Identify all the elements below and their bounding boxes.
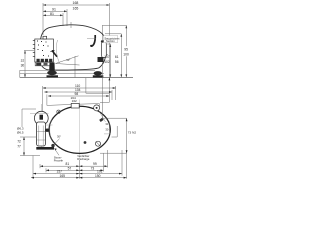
suction label box <box>104 36 118 43</box>
weld seam arc <box>56 40 59 63</box>
right foot <box>94 71 102 75</box>
process tube elbow <box>91 35 95 46</box>
svg-text:165: 165 <box>60 174 66 178</box>
svg-text:30°: 30° <box>57 134 61 138</box>
left corner ext <box>20 109 40 178</box>
svg-text:10°: 10° <box>66 58 70 62</box>
arrows top dims <box>24 4 127 77</box>
inner step arc <box>50 117 53 143</box>
svg-text:81: 81 <box>50 12 54 16</box>
left protruding pins <box>33 41 35 57</box>
cross ext line <box>30 113 49 115</box>
bolt circles on rim <box>36 147 54 150</box>
svg-text:73: 73 <box>91 166 95 170</box>
svg-text:Ø6,5: Ø6,5 <box>17 131 24 135</box>
leader rim circle to 36 <box>99 110 106 122</box>
svg-text:37: 37 <box>21 59 25 63</box>
svg-text:57: 57 <box>68 166 72 170</box>
svg-text:73 N2: 73 N2 <box>128 130 137 134</box>
ext line right x109.5 <box>109 3 111 77</box>
svg-text:72: 72 <box>17 140 21 144</box>
stacked width dims <box>43 86 116 112</box>
svg-text:150: 150 <box>95 174 101 178</box>
angle dim V <box>56 56 80 65</box>
leader from box1 to rim <box>55 149 59 155</box>
vert dim x133.5 <box>125 25 127 46</box>
rim rect top <box>71 103 79 108</box>
oval shell plan view <box>49 106 110 153</box>
svg-text:102: 102 <box>104 60 110 64</box>
dim line 81 <box>43 14 63 16</box>
ext y27.5 <box>105 33 121 35</box>
left foot <box>49 63 55 71</box>
box top stub <box>43 36 47 39</box>
rim circle <box>94 105 100 111</box>
svg-text:100: 100 <box>123 52 129 56</box>
svg-text:107: 107 <box>104 55 110 59</box>
oil tube circle inside <box>57 110 60 113</box>
svg-text:31: 31 <box>105 122 108 126</box>
right dims plan view <box>100 118 127 179</box>
vert dim x122.5 <box>120 34 122 78</box>
dim line 91 <box>43 10 67 12</box>
terminal dots <box>37 41 52 57</box>
svg-text:165: 165 <box>73 6 79 10</box>
ext y50.5 <box>24 50 34 52</box>
svg-text:56: 56 <box>115 60 119 64</box>
svg-text:30: 30 <box>105 127 108 131</box>
vert dim x111.3 <box>109 44 111 77</box>
ext y46 tube <box>107 43 111 45</box>
bottom dim rows <box>31 150 127 179</box>
left circle element <box>40 104 42 148</box>
link tick from side view tube <box>101 62 103 119</box>
terminal block row under box <box>37 59 53 62</box>
ext y54.7 tick <box>104 54 108 56</box>
svg-text:95: 95 <box>124 47 128 51</box>
foot position vertical x75 <box>74 56 76 77</box>
electrical box <box>35 39 54 62</box>
baseline <box>20 76 133 78</box>
svg-text:168: 168 <box>73 1 79 5</box>
centerline tick top <box>70 22 72 28</box>
discharge stub leader (dark diagonal) <box>52 51 57 57</box>
left corner tick <box>19 70 21 77</box>
svg-text:30: 30 <box>21 64 25 68</box>
baseplate line y73.6 <box>20 73 104 75</box>
plan view centerline <box>79 100 81 160</box>
ext line x67 <box>66 9 68 26</box>
svg-text:162: 162 <box>72 99 77 103</box>
ext line left x43 <box>42 3 44 35</box>
svg-text:Procele: Procele <box>54 158 64 162</box>
dim line 168 <box>43 4 110 6</box>
ext from tube top to height dim <box>102 25 126 40</box>
shell bottom ext y70.3 <box>20 69 95 71</box>
shell outline side view <box>40 25 106 70</box>
ext line to tube <box>87 38 96 40</box>
step extension lines linking views <box>86 77 110 102</box>
svg-text:77: 77 <box>17 144 21 148</box>
svg-text:61: 61 <box>115 55 119 59</box>
svg-text:Suction: Suction <box>106 39 115 43</box>
relay bottom <box>35 62 50 66</box>
30deg leader <box>54 139 60 145</box>
ext line x63 <box>62 13 64 26</box>
left height dim x25 <box>24 51 26 78</box>
suction tube <box>101 40 107 43</box>
